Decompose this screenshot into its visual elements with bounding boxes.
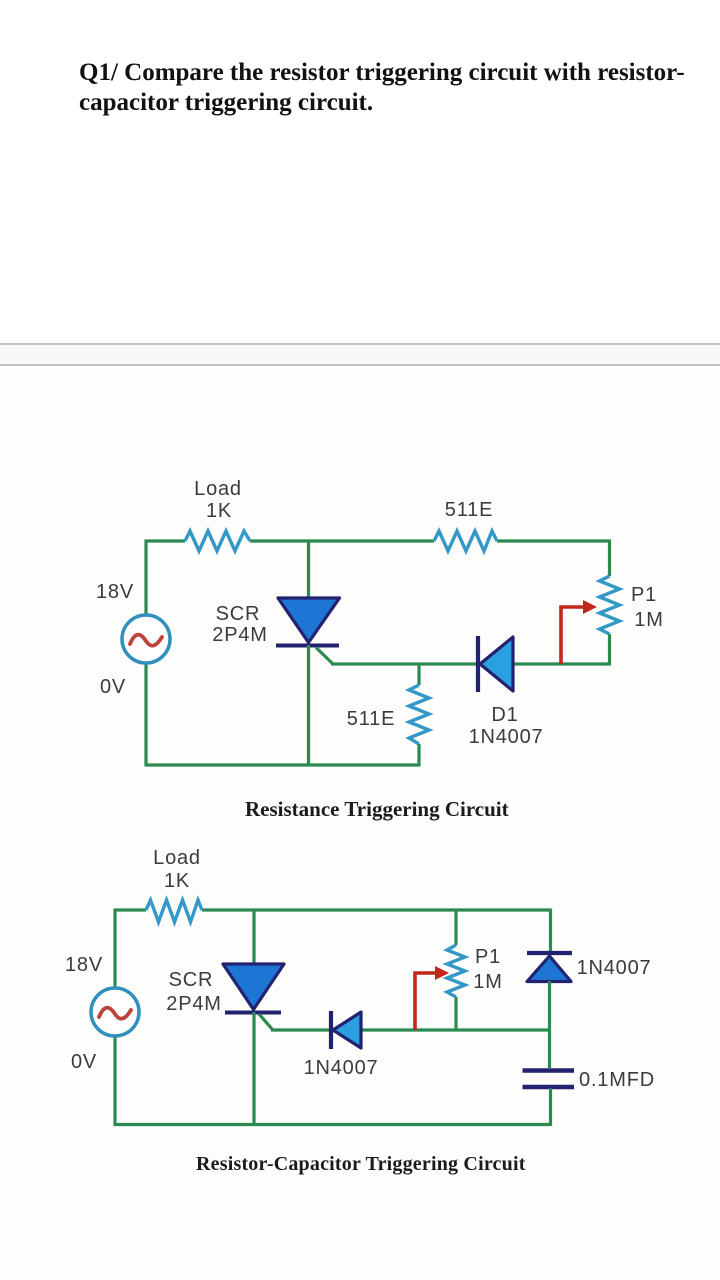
label 18V circuit2 [65, 954, 103, 976]
diode 1N4007 right circuit2 (pointing up) [527, 953, 572, 982]
label 1N4007 right circuit2 [577, 957, 652, 979]
label 0.1MFD [579, 1069, 655, 1091]
SCR U1 anode wire [307, 541, 310, 599]
wire gate/middle rail circuit2 [271, 1028, 551, 1031]
wire 511E-mid top stub [417, 664, 420, 685]
label SCR circuit2 [169, 969, 214, 991]
wire P1 top stub circuit2 [454, 910, 457, 945]
wire top rail (right of 511E resistor) [497, 539, 610, 542]
SCR U2 2P4M (thyristor triangle + cathode bar) [223, 964, 284, 1013]
photo background tint [0, 366, 720, 1280]
label D1 [491, 704, 518, 726]
svg-text:1K: 1K [164, 870, 190, 892]
wire right vertical lower stub [608, 634, 611, 666]
SCR U2 gate lead (diagonal) [259, 1014, 272, 1029]
svg-text:0.1MFD: 0.1MFD [579, 1069, 655, 1091]
wire left vertical [144, 540, 147, 767]
resistor 511E top (horizontal zigzag) [434, 531, 497, 551]
label 511E top [445, 499, 493, 521]
label 0V [100, 676, 126, 698]
caption: Resistor-Capacitor Triggering Circuit [196, 1153, 526, 1176]
svg-text:SCR: SCR [216, 603, 261, 625]
label P1 circuit2 [475, 946, 501, 968]
resistor Load 1K (horizontal zigzag) [185, 531, 250, 551]
label 1N4007 (D1) [469, 726, 544, 748]
SCR gate lead (diagonal) [316, 648, 333, 665]
resistor 511E mid (vertical zigzag) [409, 685, 429, 744]
svg-text:P1: P1 [475, 946, 501, 968]
svg-text:1M: 1M [473, 971, 502, 993]
label 0V circuit2 [71, 1051, 97, 1073]
svg-text:1N4007: 1N4007 [577, 957, 652, 979]
wire bottom rail [145, 763, 421, 766]
label Load [194, 478, 242, 500]
diode D1 1N4007 (pointing left) [478, 636, 513, 692]
svg-text:SCR: SCR [169, 969, 214, 991]
wire top rail left stub [115, 908, 146, 911]
potentiometer wiper wire (red) with arrow [561, 600, 597, 664]
svg-text:1M: 1M [634, 609, 663, 631]
svg-text:18V: 18V [96, 581, 134, 603]
label Load circuit2 [153, 847, 201, 869]
label 2P4M circuit2 [166, 993, 221, 1015]
label 1M circuit2 [473, 971, 502, 993]
potentiometer P1 1M circuit2 (vertical zigzag) [447, 945, 465, 997]
grey separator band [0, 343, 720, 366]
AC source V2 [91, 988, 139, 1036]
wire right vertical bottom circuit2 [549, 1088, 552, 1126]
wire top rail (left of Load resistor) [146, 539, 185, 542]
svg-text:D1: D1 [491, 704, 518, 726]
caption: Resistance Triggering Circuit [245, 797, 509, 822]
wire gate/middle rail [331, 662, 610, 665]
SCR U1 2P4M (thyristor triangle + cathode bar) [276, 598, 340, 646]
svg-text:2P4M: 2P4M [166, 993, 221, 1015]
svg-text:511E: 511E [347, 708, 395, 730]
label 18V [96, 581, 134, 603]
SCR U2 anode wire [252, 910, 255, 965]
diode 1N4007 mid circuit2 (pointing left) [331, 1011, 361, 1049]
wire top rail (between Load and 511E resistor) [250, 539, 434, 542]
label 1K [206, 500, 232, 522]
label 511E mid [347, 708, 395, 730]
svg-text:18V: 18V [65, 954, 103, 976]
svg-text:Load: Load [153, 847, 201, 869]
svg-text:511E: 511E [445, 499, 493, 521]
wire P1 bottom stub circuit2 [454, 997, 457, 1030]
label 1N4007 mid circuit2 [304, 1057, 379, 1079]
potentiometer P1 1M (vertical zigzag) [600, 576, 620, 634]
svg-text:0V: 0V [100, 676, 126, 698]
wire right vertical top stub circuit2 [549, 909, 552, 954]
AC source V1 [122, 615, 170, 663]
wire bottom rail circuit2 [114, 1123, 551, 1126]
SCR U2 cathode wire down [252, 1012, 255, 1126]
wire top rail (right of Load resistor) [202, 908, 551, 911]
wire left vertical circuit2 [113, 909, 116, 1127]
wire right vertical upper stub [608, 540, 611, 577]
wire right vertical mid circuit2 [548, 981, 551, 1068]
svg-text:2P4M: 2P4M [212, 624, 267, 646]
label 1M [634, 609, 663, 631]
potentiometer wiper wire circuit2 (red) with arrow [415, 966, 449, 1030]
SCR cathode wire down [307, 645, 310, 766]
svg-text:Load: Load [194, 478, 242, 500]
capacitor C1 0.1MFD [523, 1071, 575, 1088]
svg-text:1N4007: 1N4007 [469, 726, 544, 748]
label SCR [216, 603, 261, 625]
svg-text:0V: 0V [71, 1051, 97, 1073]
svg-text:P1: P1 [631, 584, 657, 606]
wire 511E-mid bottom stub [417, 744, 420, 766]
label 1K circuit2 [164, 870, 190, 892]
resistor Load 1K circuit2 (horizontal zigzag) [146, 900, 202, 922]
question heading text [79, 58, 709, 118]
label 2P4M [212, 624, 267, 646]
svg-text:1N4007: 1N4007 [304, 1057, 379, 1079]
label P1 [631, 584, 657, 606]
svg-text:1K: 1K [206, 500, 232, 522]
